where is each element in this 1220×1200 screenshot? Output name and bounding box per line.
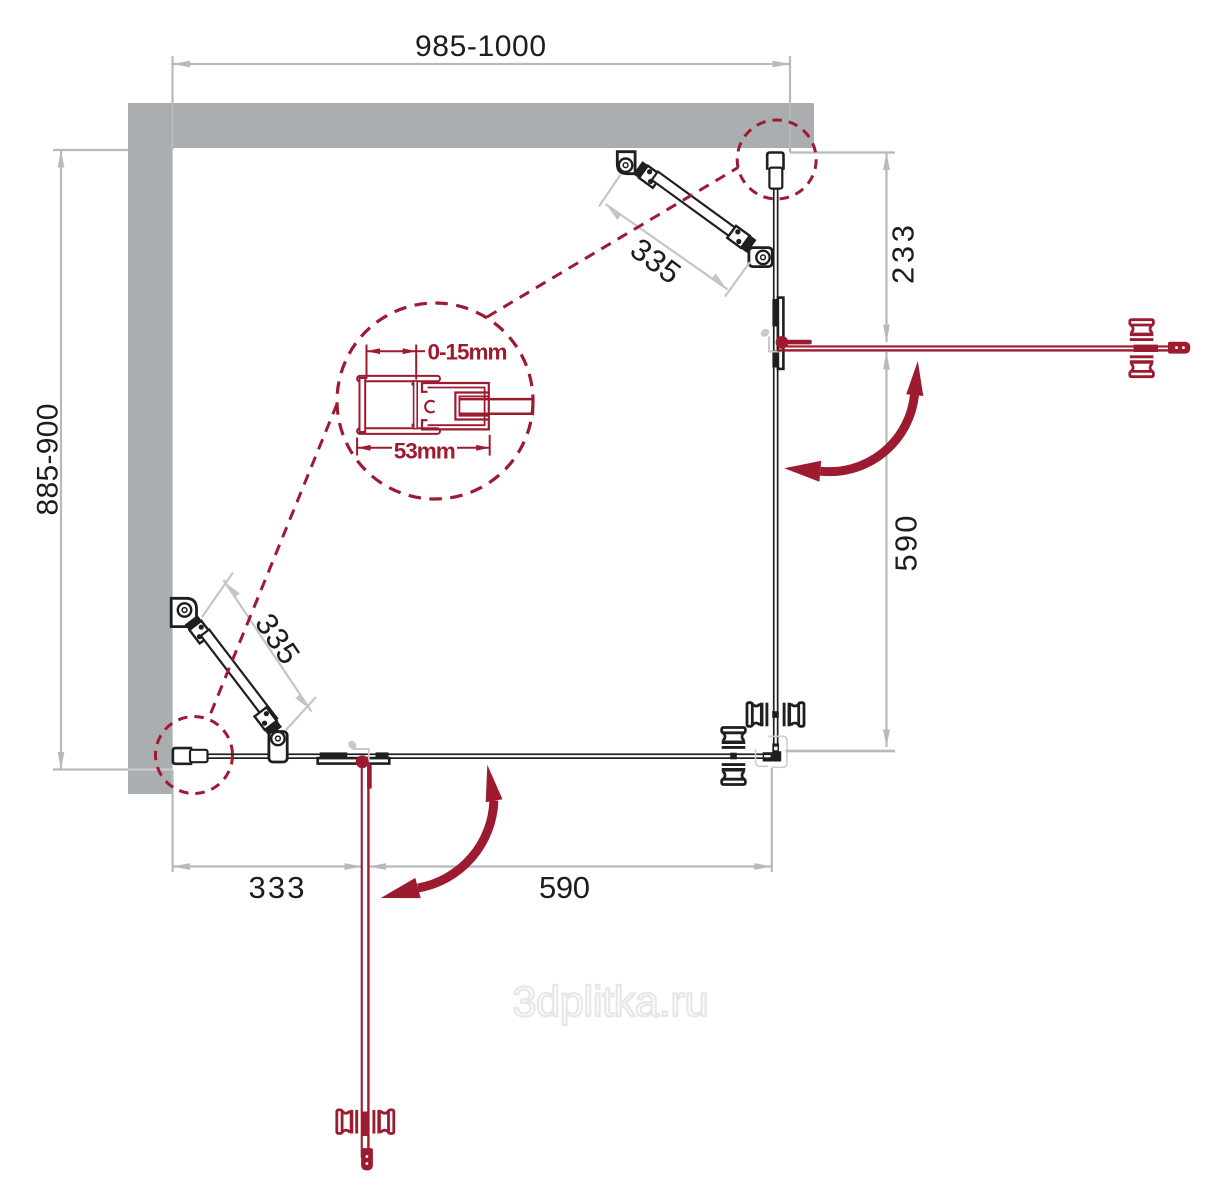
left wall (128, 103, 173, 794)
door bottom pivot dot (356, 755, 369, 768)
support arm bottom-left: bar (201, 629, 277, 724)
profile C-channel inner wall (428, 388, 485, 426)
svg-text:590: 590 (889, 516, 924, 572)
door right knob pair (red) (1130, 320, 1154, 377)
support arm bottom-left: joint near clamp (254, 707, 282, 737)
svg-text:3dplitka.ru: 3dplitka.ru (513, 978, 709, 1026)
door bottom knob stem (362, 1112, 369, 1137)
svg-text:590: 590 (539, 870, 590, 905)
black knob pair on bottom glass (closed door handle) (722, 728, 746, 785)
svg-text:885-900: 885-900 (32, 404, 65, 516)
door right hinge thick bar (788, 340, 812, 345)
hinge bracket on right glass (772, 298, 783, 369)
top wall (128, 103, 814, 148)
dashed connector to bottom-left circle (208, 404, 337, 720)
detail: wall profile cross-section (red) (357, 376, 440, 434)
door bottom knob pair (red) (337, 1110, 394, 1134)
support arm top-right: bar (652, 172, 750, 247)
ghost hinge lever bottom (light gray) (347, 739, 369, 764)
hinge bracket on bottom glass (318, 752, 390, 763)
svg-text:53mm: 53mm (394, 438, 456, 463)
dashed connector to top-right circle (487, 168, 738, 318)
right glass panel (fixed + closed door) (773, 181, 779, 745)
dimension 590 bottom (369, 768, 772, 872)
profile bottom flange (357, 428, 440, 434)
corner connector bracket black (763, 744, 782, 762)
door bottom hinge thick bar (367, 765, 372, 789)
profile glass holder slot (455, 393, 489, 420)
door right pivot dot (776, 336, 789, 349)
open door bottom (red) glass lines (361, 762, 372, 1158)
dimension 0-15mm in detail (367, 345, 426, 380)
profile top flange (357, 376, 440, 381)
profile inner bar hooks (412, 383, 415, 386)
swing arc bottom door (418, 801, 494, 888)
dimension 985-1000 top (173, 56, 791, 153)
swing arc right door (820, 395, 914, 472)
support arm bottom-left: joint near bracket (185, 615, 212, 644)
support arm bottom-left: wall bracket (171, 598, 196, 626)
svg-text:985-1000: 985-1000 (415, 30, 546, 63)
profile inner bar (414, 381, 418, 429)
support arm top-right: joint near bracket (633, 161, 662, 188)
wall profile top-right (767, 153, 783, 189)
support arm bottom-left: glass clamp (269, 732, 287, 763)
open door right (red) glass lines (777, 340, 1187, 352)
wall profile bottom-left (173, 748, 208, 764)
svg-text:333: 333 (249, 870, 305, 905)
black knob pair on right glass (closed door handle) (747, 703, 804, 727)
dimension 885-900 left (53, 150, 128, 770)
profile left bar (360, 378, 366, 432)
left ext line over wall (128, 768, 173, 770)
ghost hinge lever right (light gray) (759, 327, 781, 351)
dimension 590 right (786, 352, 896, 751)
detail circle dashed (bottom-left) (156, 717, 233, 794)
support arm top-right: wall bracket (617, 152, 635, 174)
svg-text:0-15mm: 0-15mm (428, 340, 508, 365)
dimension 333 bottom (173, 770, 362, 872)
profile C-channel outer (422, 383, 489, 429)
door right end cap (1168, 342, 1190, 354)
detail circle dashed (top-right) (737, 120, 816, 199)
support arm top-right: joint near clamp (727, 225, 757, 253)
support arm top-right: glass clamp (749, 248, 772, 267)
glass pane in detail (460, 398, 534, 401)
bottom glass panel (fixed + closed door) (200, 753, 772, 759)
door bottom end cap (361, 1148, 373, 1170)
adjustment clip c (425, 401, 434, 413)
door right knob stem (1134, 345, 1159, 352)
svg-text:233: 233 (886, 225, 921, 284)
detail circle dashed (middle) (337, 303, 533, 499)
tray corner outline light gray (756, 736, 788, 767)
dimension 335 bottom arm (202, 573, 316, 731)
dimension 53mm in detail (357, 435, 490, 456)
thick gray ext from corner right (786, 750, 896, 753)
dimension 233 right (790, 153, 895, 343)
dimension 335 top arm (599, 175, 750, 297)
